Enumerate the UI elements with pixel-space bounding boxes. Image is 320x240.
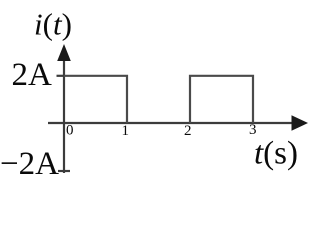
svg-text:0: 0 xyxy=(66,123,74,139)
svg-text:t(s): t(s) xyxy=(254,136,298,172)
svg-text:2: 2 xyxy=(184,123,192,139)
pulse 1 (0 to 1 s, 2A) xyxy=(64,76,127,123)
svg-text:i(t): i(t) xyxy=(34,7,72,42)
-2A tick on y-axis xyxy=(58,170,70,172)
2A tick on y-axis xyxy=(57,75,66,77)
svg-text:1: 1 xyxy=(122,123,130,139)
x-axis t xyxy=(48,122,293,124)
x-axis arrowhead xyxy=(292,115,309,131)
y-axis i(t) xyxy=(63,57,65,173)
svg-text:2A: 2A xyxy=(12,57,53,93)
svg-text:−2A: −2A xyxy=(0,146,59,182)
pulse 2 (2 to 3 s, 2A) xyxy=(190,76,253,123)
y-axis arrowhead xyxy=(57,44,71,61)
